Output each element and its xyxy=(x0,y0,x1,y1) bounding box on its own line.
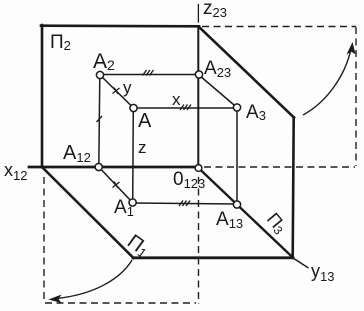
svg-text:z: z xyxy=(138,138,147,157)
svg-text:y13: y13 xyxy=(311,261,334,284)
svg-text:z23: z23 xyxy=(203,0,227,20)
svg-text:A23: A23 xyxy=(204,58,231,80)
svg-text:A12: A12 xyxy=(63,142,91,165)
svg-text:П2: П2 xyxy=(50,32,71,53)
svg-text:A3: A3 xyxy=(246,102,266,123)
svg-text:П1: П1 xyxy=(123,230,153,261)
svg-text:x12: x12 xyxy=(4,160,27,183)
svg-text:y: y xyxy=(123,78,132,97)
svg-text:x: x xyxy=(172,90,181,109)
svg-text:A13: A13 xyxy=(216,209,243,231)
svg-text:A2: A2 xyxy=(93,50,115,73)
svg-text:0123: 0123 xyxy=(173,169,205,191)
svg-text:A: A xyxy=(138,110,152,132)
